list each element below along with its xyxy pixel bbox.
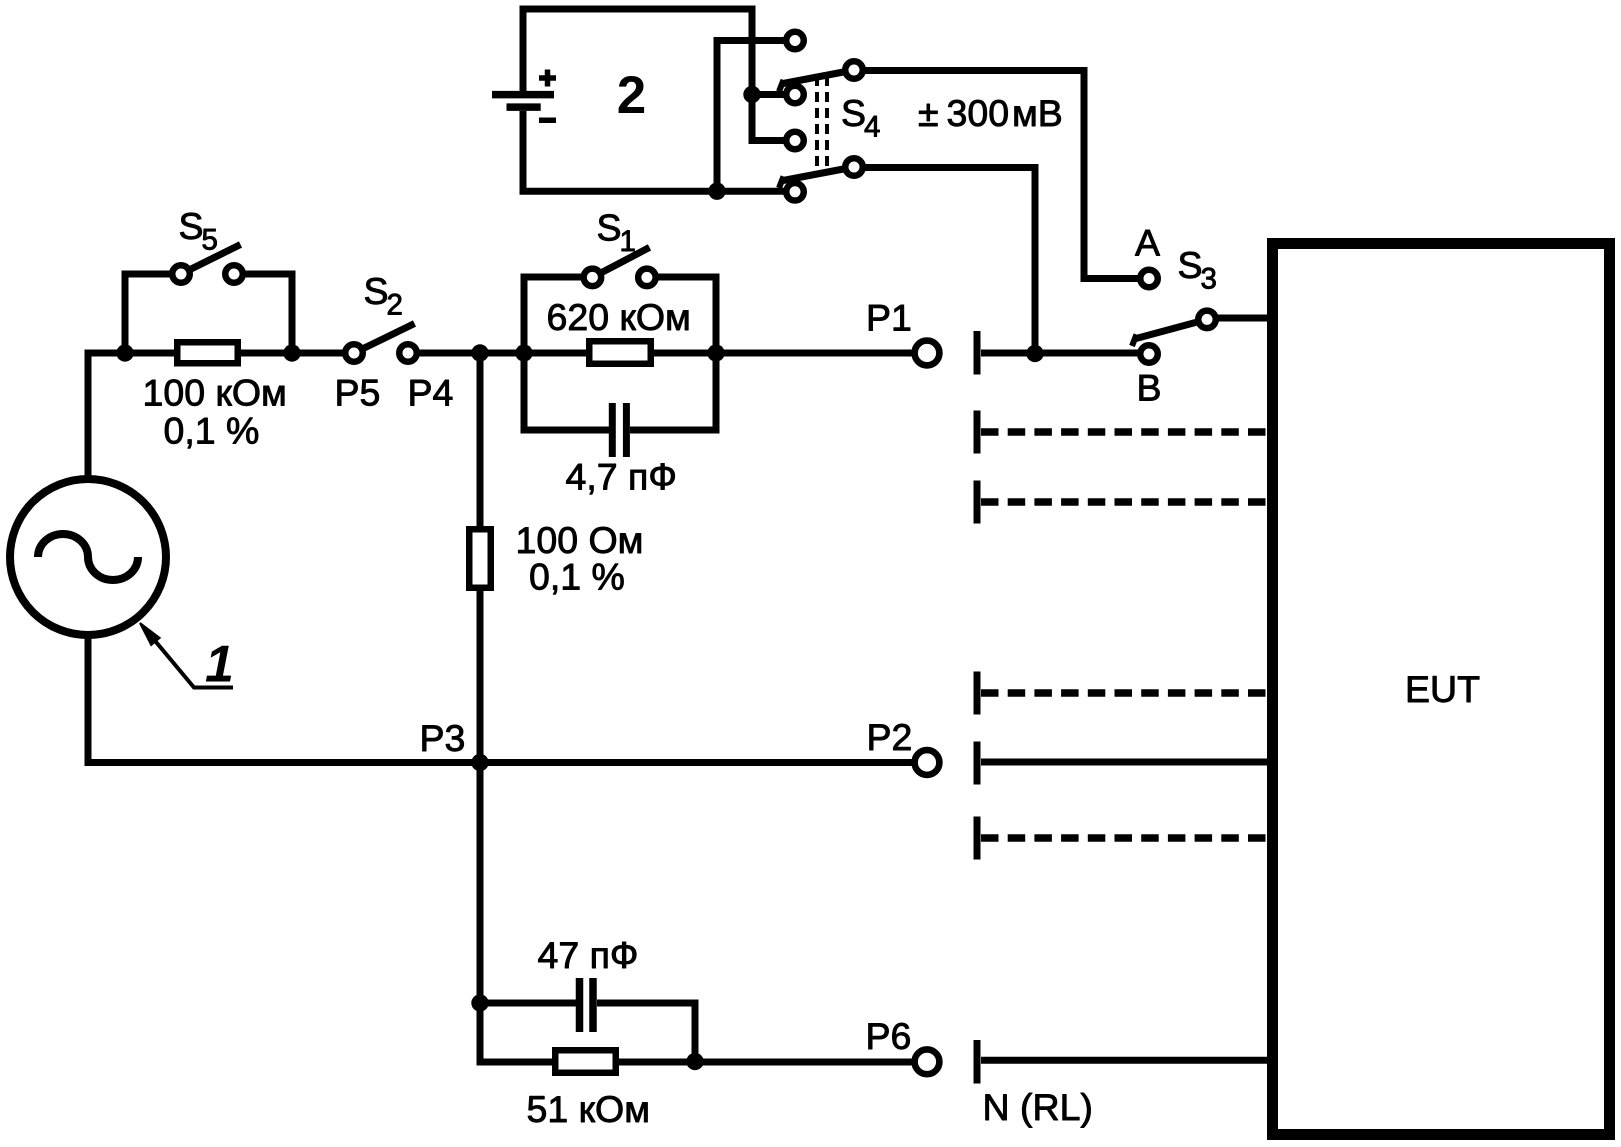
svg-text:S: S: [179, 205, 204, 247]
svg-text:2: 2: [617, 66, 646, 125]
svg-text:EUT: EUT: [1405, 668, 1480, 710]
svg-text:P6: P6: [866, 1015, 912, 1057]
svg-text:100 кОм: 100 кОм: [143, 371, 287, 413]
svg-text:4,7 пФ: 4,7 пФ: [566, 455, 677, 497]
svg-text:0,1 %: 0,1 %: [529, 556, 625, 598]
svg-text:B: B: [1137, 367, 1162, 409]
svg-text:P2: P2: [867, 716, 913, 758]
svg-text:1: 1: [620, 225, 636, 258]
svg-text:2: 2: [387, 289, 403, 322]
svg-text:мВ: мВ: [1012, 92, 1063, 134]
svg-text:4: 4: [864, 111, 880, 144]
svg-text:N (RL): N (RL): [983, 1086, 1093, 1128]
svg-text:51 кОм: 51 кОм: [527, 1088, 651, 1130]
svg-text:P5: P5: [335, 371, 381, 413]
svg-text:A: A: [1135, 222, 1160, 264]
svg-text:S: S: [597, 207, 622, 249]
svg-text:47 пФ: 47 пФ: [538, 934, 639, 976]
svg-text:300: 300: [947, 92, 1010, 134]
svg-text:S: S: [364, 270, 389, 312]
svg-text:S: S: [1178, 244, 1203, 286]
svg-text:1: 1: [205, 636, 234, 694]
svg-text:P3: P3: [420, 717, 466, 759]
svg-text:P1: P1: [866, 297, 912, 339]
svg-text:±: ±: [918, 92, 939, 134]
svg-text:620 кОм: 620 кОм: [547, 296, 691, 338]
svg-text:S: S: [841, 92, 866, 134]
svg-text:P4: P4: [408, 371, 454, 413]
svg-text:3: 3: [1201, 263, 1217, 296]
svg-text:0,1 %: 0,1 %: [164, 410, 260, 452]
svg-text:5: 5: [202, 224, 218, 257]
